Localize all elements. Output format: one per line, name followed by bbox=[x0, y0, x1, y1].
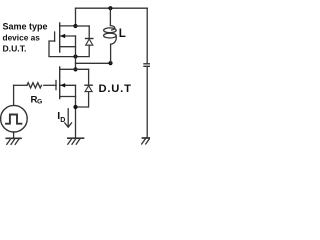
svg-text:D.U.T: D.U.T bbox=[99, 83, 132, 95]
capacitor C bottom plate bbox=[144, 65, 150, 67]
transistor DUT body stub bbox=[60, 84, 76, 86]
transistor M1 drain stub bbox=[60, 25, 76, 27]
node top rail / inductor bbox=[108, 6, 112, 10]
wire generator top to RG bbox=[13, 85, 15, 105]
ground generator bbox=[6, 137, 21, 139]
right rail lower bbox=[146, 66, 148, 138]
transistor M1 gate bar bbox=[54, 32, 56, 41]
ground right bbox=[143, 137, 151, 139]
transistor DUT gate bar bbox=[55, 81, 57, 90]
resistor RG zigzag bbox=[27, 83, 41, 88]
diode D2 cathode bar bbox=[85, 84, 92, 86]
transistor M1 channel bar bbox=[59, 23, 61, 52]
transistor DUT source stub bbox=[60, 96, 76, 98]
transistor DUT drain stub bbox=[60, 68, 89, 70]
wire M1 body/source vertical bbox=[75, 36, 77, 69]
diode D1 cathode bar bbox=[86, 38, 93, 40]
wire DUT body/source vertical down to ground bbox=[75, 85, 77, 138]
capacitor C top plate bbox=[144, 63, 150, 65]
node DUT source bbox=[73, 105, 77, 109]
inductor L bottom lead bbox=[110, 44, 112, 63]
diode D2 cathode lead bbox=[88, 69, 90, 85]
transistor M1 body arrow bbox=[60, 34, 65, 38]
inductor L coil bbox=[110, 26, 114, 31]
pulse generator waveform glyph bbox=[6, 115, 21, 124]
svg-text:L: L bbox=[119, 28, 126, 40]
wire RG to DUT gate bbox=[44, 84, 56, 86]
transistor DUT channel bar bbox=[59, 67, 61, 99]
svg-text:Same type: Same type bbox=[3, 22, 48, 32]
wire drain node to inductor bottom bbox=[76, 62, 111, 64]
svg-text:G: G bbox=[37, 98, 42, 105]
wire M1 drain to top rail bbox=[75, 8, 77, 26]
diode D1 triangle bbox=[86, 39, 93, 45]
inductor L top lead bbox=[109, 8, 111, 25]
node inductor bottom bbox=[108, 61, 112, 65]
transistor M1 source stub bbox=[60, 46, 76, 48]
transistor DUT body arrow bbox=[60, 83, 65, 87]
ground DUT source bbox=[68, 137, 84, 139]
diode D2 anode lead bbox=[76, 92, 89, 107]
wire generator bottom to ground bbox=[13, 132, 15, 138]
diode D1 cathode lead bbox=[88, 26, 90, 39]
node M1 source bbox=[73, 54, 77, 58]
wire drain node to clamp diode bbox=[76, 25, 90, 27]
note: Same type device as D.U.T. bbox=[3, 22, 48, 54]
diode D1 anode lead bbox=[76, 45, 90, 56]
svg-text:D.U.T.: D.U.T. bbox=[3, 44, 27, 54]
diode D2 triangle bbox=[85, 86, 92, 92]
pulse generator V1 circle bbox=[1, 105, 28, 132]
node M1 drain bbox=[73, 24, 77, 28]
top rail bbox=[76, 7, 148, 9]
svg-text:device as: device as bbox=[3, 33, 41, 43]
wire M1 gate tie to source bbox=[49, 41, 76, 57]
transistor M1 body stub bbox=[60, 35, 76, 37]
current arrow ID bbox=[67, 109, 69, 127]
svg-text:D: D bbox=[60, 117, 65, 124]
node DUT drain stub junction bbox=[73, 67, 77, 71]
right rail bbox=[146, 8, 148, 63]
